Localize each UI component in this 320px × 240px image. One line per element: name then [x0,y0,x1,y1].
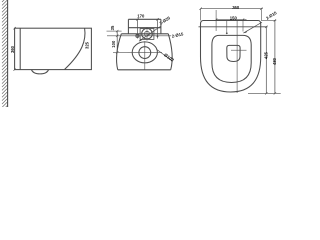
svg-text:360: 360 [10,45,15,53]
svg-text:360: 360 [232,5,240,10]
svg-text:150: 150 [230,15,238,20]
svg-text:170: 170 [137,13,145,18]
svg-text:425: 425 [263,51,268,59]
svg-text:325: 325 [85,41,90,49]
svg-text:480: 480 [272,57,277,65]
svg-text:100: 100 [111,40,116,48]
svg-text:35: 35 [110,25,115,30]
